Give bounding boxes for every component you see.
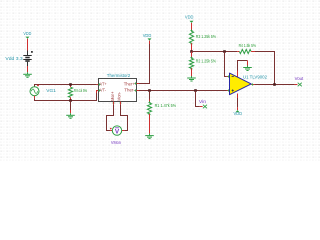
VDD flag (mid) — [148, 38, 152, 40]
voltmeter plus mark — [110, 128, 112, 130]
svg-text:VDD: VDD — [185, 15, 194, 21]
wire inverting input — [225, 52, 227, 77]
VDD flag (battery branch) — [26, 37, 30, 39]
resistor R3 top lead — [191, 23, 193, 31]
resistor R3 bottom lead — [191, 43, 193, 51]
op-amp minus mark — [232, 76, 234, 78]
wire Mon- to voltmeter — [120, 102, 122, 105]
terminal Vin — [203, 105, 207, 109]
wire battery to ground — [27, 62, 29, 66]
op-amp supply bottom wire to VDD — [237, 94, 239, 99]
wire VG1 top to thermistor VT+ — [35, 85, 97, 87]
thermistor box — [99, 79, 137, 102]
VG1 plus mark — [37, 84, 39, 86]
terminal Vout — [298, 83, 302, 87]
svg-text:VDD: VDD — [23, 31, 31, 37]
svg-text:Vdd 3.3: Vdd 3.3 — [5, 56, 23, 61]
resistor R2 top lead — [191, 52, 193, 59]
wire R4 to output (feedback) — [255, 52, 275, 85]
battery polarity dot — [31, 51, 33, 53]
wire junction to ground — [70, 101, 72, 111]
resistor R3 — [189, 31, 193, 43]
svg-text:R1 1.47k 5%: R1 1.47k 5% — [155, 103, 177, 108]
junction feedback/output — [273, 83, 276, 86]
R1 bottom lead to ground — [149, 114, 151, 134]
junction Vin — [194, 89, 197, 92]
junction R1 top — [148, 89, 151, 92]
VDD flag (right) — [190, 21, 194, 23]
svg-text:Vin: Vin — [199, 99, 206, 105]
wire VDD to battery V1 — [27, 39, 29, 51]
voltmeter VMon — [112, 126, 121, 135]
wire Ther+ to VDD — [137, 83, 140, 85]
svg-text:Rm 1k 5%: Rm 1k 5% — [74, 88, 87, 93]
VDD flag (op-amp) — [236, 110, 240, 112]
svg-text:Thermistor2: Thermistor2 — [107, 73, 131, 79]
junction Rm bottom — [69, 99, 72, 102]
svg-text:VT+: VT+ — [100, 82, 107, 87]
generator VG1 — [30, 87, 39, 96]
resistor R2 — [189, 58, 193, 68]
resistor R1 — [147, 103, 151, 114]
svg-text:Ther-: Ther- — [124, 87, 135, 92]
wire junction to R1 — [149, 91, 151, 100]
resistor R4 left lead — [237, 51, 239, 53]
svg-text:VT-: VT- — [100, 87, 106, 92]
battery V1 (Vdd 3.3) — [23, 56, 31, 62]
svg-text:VG1: VG1 — [46, 88, 56, 94]
svg-text:Mon+: Mon+ — [110, 91, 115, 100]
resistor R4 right lead — [251, 51, 255, 53]
junction Rm top — [69, 83, 72, 86]
svg-text:Vout: Vout — [295, 76, 304, 82]
op-amp supply top wire to ground — [237, 71, 239, 78]
wire Ther- to op-amp noninverting input — [137, 90, 140, 92]
resistor R4 — [239, 49, 251, 53]
svg-text:Ther+: Ther+ — [124, 82, 135, 87]
svg-text:R4 1.5k 5%: R4 1.5k 5% — [239, 43, 256, 48]
resistor R2 bottom lead — [191, 68, 193, 76]
svg-text:R2 1.25k 5%: R2 1.25k 5% — [196, 59, 216, 64]
op-amp plus mark — [232, 89, 234, 91]
wire Mon+ to voltmeter — [113, 102, 115, 105]
ground (R1) — [145, 134, 154, 139]
wire VG1 bottom rail — [34, 96, 36, 99]
wire to Vin terminal — [196, 91, 200, 107]
op-amp U1 triangle — [230, 73, 252, 95]
resistor Rm bottom lead — [70, 97, 72, 100]
svg-text:VDD: VDD — [143, 33, 152, 39]
svg-text:R3 1.25k 5%: R3 1.25k 5% — [196, 34, 216, 39]
svg-text:Mon-: Mon- — [117, 92, 122, 101]
junction R3/R2 — [190, 50, 193, 53]
wire op-amp output to Vout — [251, 84, 255, 86]
svg-text:VDD: VDD — [234, 111, 243, 117]
resistor Rm — [68, 87, 72, 97]
ground (Rm branch) — [66, 113, 75, 118]
ground (op-amp V-) — [243, 66, 252, 71]
resistor Rm top lead — [70, 85, 72, 88]
wire R3 junction to R4 — [192, 51, 238, 53]
ground (battery) — [23, 72, 32, 77]
junction inverting tap — [223, 50, 226, 53]
svg-text:VMon: VMon — [111, 140, 121, 146]
svg-text:V: V — [115, 129, 120, 136]
svg-text:U1 TLV9002: U1 TLV9002 — [243, 74, 267, 79]
ground (R2) — [187, 76, 196, 81]
